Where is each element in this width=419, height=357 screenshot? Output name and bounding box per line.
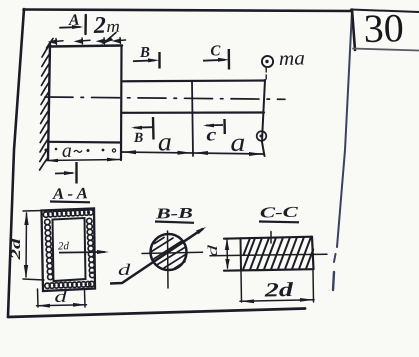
svg-text:ma: ma [279, 47, 305, 70]
svg-text:a: a [62, 140, 72, 162]
svg-text:d: d [206, 243, 221, 257]
svg-text:2d: 2d [263, 279, 294, 302]
svg-text:B: B [133, 131, 144, 146]
svg-text:C: C [210, 43, 221, 59]
svg-text:C-C: C-C [260, 205, 300, 222]
svg-text:2d: 2d [58, 240, 70, 252]
svg-text:d: d [118, 262, 132, 279]
svg-text:A - A: A - A [52, 185, 89, 203]
svg-text:30: 30 [363, 5, 404, 51]
svg-text:B-B: B-B [154, 206, 193, 223]
svg-text:2: 2 [93, 13, 107, 39]
svg-text:c: c [206, 124, 216, 144]
svg-text:A: A [68, 12, 80, 29]
svg-text:a: a [230, 128, 246, 157]
svg-text:m: m [106, 17, 120, 36]
svg-text:B: B [139, 45, 150, 61]
svg-text:d: d [54, 287, 68, 306]
svg-text:2d: 2d [9, 237, 24, 261]
